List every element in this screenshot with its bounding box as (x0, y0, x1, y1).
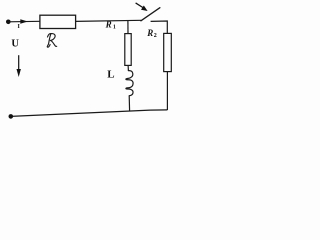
wire: R1 to inductor L (127, 65, 129, 70)
switch actuation arrow (136, 3, 143, 8)
svg-text:L: L (107, 68, 114, 80)
resistor R1 (vertical box) (125, 34, 131, 66)
inductor L (coil) (126, 71, 133, 96)
svg-text:R: R (146, 28, 153, 38)
node: bottom-left input terminal (9, 114, 14, 119)
svg-text:1: 1 (113, 24, 116, 30)
current arrow I on top wire (20, 19, 28, 24)
resistor R2 (vertical box) (164, 33, 172, 71)
svg-text:2: 2 (154, 33, 157, 39)
wire: top-left terminal to resistor R (8, 20, 40, 23)
bottom rail wire (11, 110, 168, 117)
wire: switch contact to right branch corner (151, 21, 168, 33)
node: top-left input terminal (6, 20, 11, 25)
switch blade (141, 8, 160, 21)
label R (handwritten script) (47, 34, 56, 48)
voltage arrow U (downward) (18, 55, 20, 70)
wire: inductor L to bottom rail (128, 96, 130, 112)
wire: junction down to resistor R1 (127, 20, 129, 33)
wire: resistor R to switch pivot (76, 20, 142, 21)
svg-text:U: U (11, 39, 19, 50)
svg-text:R: R (105, 19, 112, 29)
resistor R (series box) (40, 15, 76, 28)
wire: R2 to bottom rail (166, 72, 168, 110)
